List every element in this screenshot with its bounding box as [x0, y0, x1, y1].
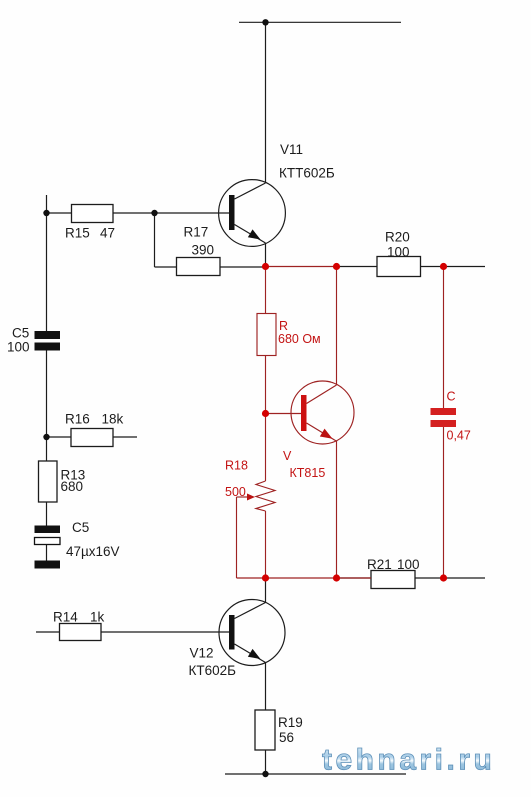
- svg-text:47µx16V: 47µx16V: [66, 544, 120, 559]
- svg-text:V: V: [283, 449, 292, 463]
- svg-text:КТ602Б: КТ602Б: [189, 663, 237, 678]
- svg-text:680 Ом: 680 Ом: [278, 332, 321, 346]
- svg-text:C5: C5: [72, 520, 89, 535]
- svg-text:V12: V12: [190, 646, 214, 661]
- svg-text:100: 100: [397, 557, 420, 572]
- svg-text:R15: R15: [65, 226, 90, 241]
- svg-text:R20: R20: [385, 230, 410, 245]
- svg-text:R: R: [279, 319, 288, 333]
- svg-text:R18: R18: [225, 459, 248, 473]
- svg-text:1k: 1k: [90, 610, 105, 625]
- svg-text:КТ815: КТ815: [290, 466, 326, 480]
- svg-text:R17: R17: [184, 225, 209, 240]
- svg-text:56: 56: [279, 730, 294, 745]
- svg-text:R19: R19: [278, 715, 303, 730]
- svg-text:100: 100: [7, 340, 30, 355]
- svg-text:18k: 18k: [102, 412, 124, 427]
- svg-text:C: C: [447, 390, 456, 404]
- svg-text:100: 100: [387, 245, 410, 260]
- svg-text:R14: R14: [53, 610, 78, 625]
- svg-text:R21: R21: [367, 557, 392, 572]
- svg-text:500: 500: [225, 485, 246, 499]
- svg-text:КТТ602Б: КТТ602Б: [279, 166, 335, 181]
- svg-text:V11: V11: [280, 142, 303, 157]
- svg-text:tehnari.ru: tehnari.ru: [322, 744, 495, 777]
- svg-text:R16: R16: [65, 412, 90, 427]
- svg-text:390: 390: [192, 243, 215, 258]
- svg-text:0,47: 0,47: [447, 429, 471, 443]
- svg-text:C5: C5: [12, 326, 29, 341]
- svg-text:47: 47: [100, 226, 115, 241]
- svg-text:680: 680: [61, 479, 84, 494]
